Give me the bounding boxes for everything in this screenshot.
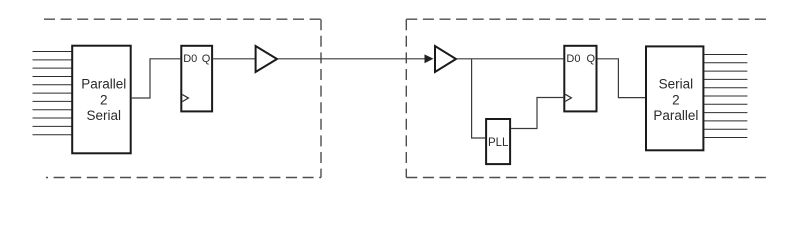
Parallel 2 Serial converter block: [72, 46, 131, 154]
wire: Q output to line driver: [213, 58, 256, 60]
svg-text:Serial: Serial: [87, 108, 122, 123]
svg-text:PLL: PLL: [488, 137, 509, 149]
svg-text:D0: D0: [183, 53, 197, 65]
parallel input bus wires: [33, 52, 73, 135]
Serial 2 Parallel label: [653, 76, 698, 123]
parallel output bus wires: [704, 55, 748, 138]
wire: tap to PLL input: [472, 59, 486, 138]
arrowhead into receiver buffer: [425, 54, 434, 63]
svg-text:Q: Q: [586, 53, 595, 65]
wire: received serial data to flip-flop D input: [457, 58, 564, 60]
receiver enclosure dashed box: [406, 19, 767, 177]
svg-text:D0: D0: [566, 53, 580, 65]
U2 clock input chevron: [565, 94, 571, 101]
wire: serial data from converter to flip-flop D input: [132, 59, 181, 98]
D flip-flop U2 (receive retimer): [564, 46, 596, 112]
wire: serial transmission line: [278, 58, 426, 60]
svg-text:Parallel: Parallel: [653, 108, 698, 123]
transmitter enclosure dashed box: [44, 19, 321, 177]
svg-text:Serial: Serial: [659, 76, 694, 91]
svg-text:Parallel: Parallel: [81, 77, 126, 92]
wire: U2 Q output to serial-to-parallel converter: [597, 59, 645, 98]
line driver buffer (transmit): [256, 46, 277, 72]
D flip-flop U1 (transmit retimer): [181, 46, 212, 112]
receiver buffer: [435, 46, 456, 72]
wire: recovered clock from PLL to flip-flop clock input: [511, 98, 563, 129]
Serial 2 Parallel converter block: [646, 46, 703, 150]
svg-text:2: 2: [672, 92, 680, 107]
PLL clock recovery block: [486, 119, 510, 164]
U1 clock input chevron: [182, 95, 188, 102]
svg-text:Q: Q: [202, 53, 211, 65]
Parallel 2 Serial label: [81, 77, 126, 123]
svg-text:2: 2: [100, 92, 108, 107]
